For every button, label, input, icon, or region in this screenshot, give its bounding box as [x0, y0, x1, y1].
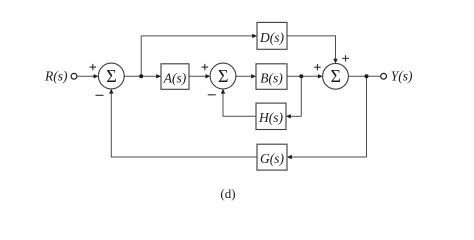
- arrowhead into G(s) right: [287, 155, 292, 159]
- svg-text:A(s): A(s): [163, 71, 187, 86]
- wire: S3 to Y terminal: [348, 75, 380, 77]
- arrowhead into B(s): [251, 74, 256, 78]
- block D(s) box: [257, 22, 287, 49]
- wire: H rail into H(s) right edge: [290, 115, 301, 117]
- block A(s) box: [161, 64, 189, 90]
- arrowhead into S1 bottom: [109, 89, 113, 94]
- block B(s) box: [256, 64, 287, 90]
- arrowhead into S2: [205, 74, 210, 78]
- svg-text:Y(s): Y(s): [391, 69, 413, 84]
- wire: G rail into G(s) right edge: [291, 156, 367, 158]
- wire: S2 to B(s): [236, 75, 252, 77]
- summer S3 circle: [323, 63, 349, 89]
- block G(s) box: [257, 144, 287, 170]
- arrowhead into H(s) right: [286, 114, 291, 118]
- block H(s) box: [256, 103, 286, 129]
- summer S2 circle: [210, 63, 236, 89]
- wire: S1 to A(s), with node: [124, 75, 157, 77]
- plus sign at S3 top input: [342, 55, 349, 61]
- svg-text:Σ: Σ: [106, 66, 116, 86]
- input terminal R(s): [71, 73, 77, 79]
- svg-text:Σ: Σ: [218, 66, 228, 86]
- minus sign at S2 lower input: [208, 94, 216, 96]
- svg-text:H(s): H(s): [258, 110, 283, 125]
- wire: top rail to D(s): [141, 35, 253, 37]
- node A junction dot: [139, 74, 143, 78]
- arrowhead into S3 left: [318, 74, 323, 78]
- wire: node B down to H rail: [300, 76, 302, 116]
- svg-text:D(s): D(s): [259, 30, 284, 45]
- plus sign at S2 input: [202, 64, 209, 70]
- arrowhead into S3 top: [333, 59, 337, 64]
- arrowhead into S2 bottom: [221, 89, 225, 94]
- svg-text:G(s): G(s): [260, 151, 284, 166]
- arrowhead into D(s): [252, 34, 257, 38]
- node B junction dot: [299, 74, 303, 78]
- node Y junction dot: [365, 74, 369, 78]
- svg-text:Σ: Σ: [330, 66, 340, 86]
- wire: D(s) to above S3 then down: [287, 36, 336, 60]
- arrowhead into S1: [94, 74, 99, 78]
- wire: A(s) to summer S2: [189, 75, 207, 77]
- svg-text:B(s): B(s): [260, 71, 283, 86]
- output terminal Y(s): [381, 73, 387, 79]
- arrowhead into A(s): [156, 74, 161, 78]
- plus sign at S1 input: [90, 64, 97, 70]
- minus sign at S1 lower input: [96, 94, 104, 96]
- svg-text:R(s): R(s): [44, 69, 68, 84]
- wire: B(s) to summer S3: [287, 75, 319, 77]
- svg-text:(d): (d): [220, 186, 235, 201]
- plus sign at S3 left input: [314, 64, 321, 70]
- summer S1 circle: [98, 63, 124, 89]
- wire: G(s) left to below S1 then up: [111, 93, 257, 157]
- wire: R terminal to summer S1: [77, 75, 94, 77]
- wire: H(s) left to below S2 then up: [223, 93, 256, 117]
- wire: node Y down to G rail: [366, 76, 368, 157]
- wire: node A up to top rail: [140, 36, 142, 76]
